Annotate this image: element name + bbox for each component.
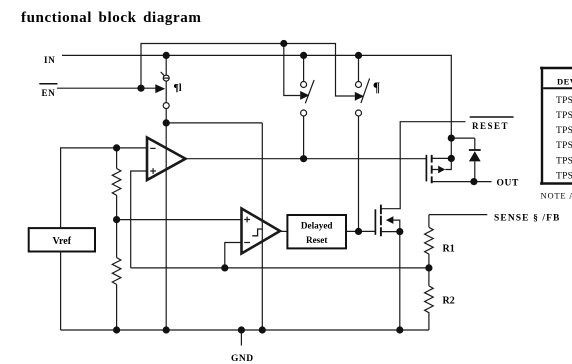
transistor Q1 pass PMOS gate bar bbox=[425, 155, 427, 182]
svg-text:GND: GND bbox=[231, 354, 254, 364]
arrow S2 actuator bbox=[300, 91, 309, 100]
svg-text:Reset: Reset bbox=[306, 235, 328, 245]
transistor Q1 body arrow bbox=[438, 166, 445, 174]
resistor R1 bbox=[425, 227, 434, 254]
transistor Q2 open-drain NMOS gate bar bbox=[374, 209, 376, 235]
diode D1 body diode bbox=[469, 149, 481, 151]
resistor internal divider upper bbox=[112, 169, 121, 196]
wire Q2 drain to RESET bbox=[381, 122, 466, 209]
wire Delayed Reset output to Q2 gate bbox=[346, 230, 375, 232]
wire switch S1 stem bbox=[165, 55, 167, 123]
wire Q1 body bbox=[432, 158, 452, 169]
svg-text:R2: R2 bbox=[443, 295, 455, 306]
svg-text:R1: R1 bbox=[443, 244, 455, 255]
arrow S1 actuator bbox=[155, 84, 165, 93]
svg-text:TPS769: TPS769 bbox=[556, 126, 572, 136]
wire switch S3 stem bbox=[358, 55, 360, 231]
wire U2 noninverting input bbox=[117, 219, 242, 221]
svg-text:TPS769: TPS769 bbox=[556, 171, 572, 181]
svg-text:OUT: OUT bbox=[497, 178, 519, 188]
svg-text:IN: IN bbox=[44, 55, 56, 65]
switch S1 bbox=[161, 72, 170, 109]
wire comparator U2 bias bbox=[166, 123, 262, 330]
wire Q2 body bbox=[393, 220, 399, 232]
wire EN actuation rail bbox=[141, 44, 355, 97]
svg-text:SENSE § /FB: SENSE § /FB bbox=[494, 213, 560, 223]
transistor Q2 body arrow bbox=[386, 216, 394, 224]
wire U2 output bbox=[280, 230, 287, 232]
wire switch S2 stem bbox=[303, 55, 305, 158]
svg-text:NOTE A: NOTE A bbox=[541, 190, 572, 200]
wire U1 output to Q1 gate bbox=[186, 158, 427, 160]
wire switch S2 actuation feed bbox=[284, 44, 300, 96]
svg-text:¶l: ¶l bbox=[174, 83, 182, 94]
wire GND pin tick bbox=[240, 330, 242, 346]
transistor Q1 channel bbox=[431, 155, 433, 183]
wire diode D1 branch bbox=[451, 138, 475, 182]
switch S3 bbox=[356, 78, 370, 116]
wire R2 branch bbox=[428, 268, 430, 330]
svg-text:TPS769: TPS769 bbox=[556, 141, 572, 151]
table device list border bbox=[540, 67, 572, 185]
svg-text:EN: EN bbox=[42, 88, 56, 98]
arrow S3 actuator bbox=[355, 92, 364, 101]
resistor internal divider lower bbox=[112, 258, 121, 285]
wire EN input bbox=[57, 87, 156, 89]
resistor R2 bbox=[425, 286, 434, 313]
wire GND rail bbox=[61, 252, 429, 331]
wire Q2 source to ground bbox=[381, 232, 400, 330]
transistor Q2 channel bbox=[380, 205, 382, 237]
wire Q1 source bbox=[432, 138, 452, 158]
op-amp U2 reset comparator bbox=[242, 209, 281, 254]
svg-text:¶: ¶ bbox=[373, 80, 380, 95]
Vref block bbox=[29, 228, 95, 251]
wire comparator U1 bias bbox=[165, 123, 167, 330]
svg-text:Delayed: Delayed bbox=[301, 221, 333, 231]
wire internal divider bbox=[116, 148, 118, 330]
svg-text:TPS769: TPS769 bbox=[556, 96, 572, 106]
wire U1 noninverting input bbox=[131, 171, 147, 268]
table rows TPS769xx bbox=[556, 96, 572, 181]
svg-text:functional block diagram: functional block diagram bbox=[21, 10, 201, 26]
wire U2 inverting input bbox=[225, 243, 242, 268]
svg-text:Vref: Vref bbox=[53, 236, 72, 247]
wire feedback FB net bbox=[131, 267, 429, 269]
op-amp U1 error amplifier bbox=[147, 138, 186, 181]
wire SENSE/FB bbox=[429, 215, 487, 268]
switch S2 bbox=[301, 80, 315, 116]
wire Q1 drain to OUT bbox=[432, 181, 492, 183]
wire IN rail bbox=[62, 55, 451, 138]
Delayed Reset block bbox=[287, 215, 346, 248]
svg-text:RESET: RESET bbox=[472, 121, 509, 131]
svg-text:TPS769: TPS769 bbox=[556, 111, 572, 121]
svg-text:TPS769: TPS769 bbox=[556, 156, 572, 166]
wire Vref to U1 inverting input bbox=[61, 148, 147, 228]
svg-text:DEVICE: DEVICE bbox=[557, 77, 572, 87]
